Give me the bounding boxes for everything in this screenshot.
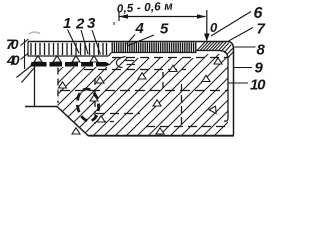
dimension left tick (118, 12, 120, 22)
svg-text:9: 9 (255, 60, 264, 77)
svg-text:8: 8 (257, 42, 266, 59)
left tick 1 (21, 39, 29, 46)
shoulder edge vertical (34, 67, 36, 107)
svg-text:10: 10 (250, 77, 266, 94)
left dimension extension (24, 39, 26, 69)
leader 9 (234, 67, 253, 69)
trench slope (57, 107, 89, 137)
ground line left (25, 106, 57, 108)
svg-text:4: 4 (135, 20, 145, 37)
pavement band left edge (27, 42, 29, 57)
zero level line (206, 10, 208, 40)
dashed vertical x163 (162, 72, 164, 88)
svg-text:7: 7 (257, 21, 266, 38)
leader 8 (234, 46, 256, 48)
dense vertical hatch right band (112, 43, 196, 53)
pavement band step (109, 53, 112, 57)
svg-text:70: 70 (6, 36, 19, 52)
svg-text:40: 40 (6, 52, 20, 68)
leader 7 (229, 28, 254, 42)
scattered triangles in body (59, 58, 223, 134)
dashed line y126 (146, 126, 227, 128)
dashed vertical x181 (181, 84, 183, 128)
dashed line y121 (98, 121, 114, 123)
svg-text:5: 5 (160, 21, 169, 38)
embankment slope stroke a (17, 66, 32, 78)
embankment slope stroke b (22, 67, 36, 83)
dashed vertical trench edge x59 (57, 68, 59, 104)
vertical hatch left band (31, 43, 107, 55)
curb inner outline (197, 51, 229, 122)
leader 1 (68, 30, 80, 54)
leader 4 (127, 35, 136, 45)
curb outer outline (197, 42, 234, 136)
black membrane strip (30, 62, 111, 67)
zero level arrow (204, 34, 210, 42)
triangle row on strip (34, 56, 98, 62)
leader 2 (81, 30, 88, 54)
joint curl mark (116, 57, 125, 68)
dashed layer line y90 (60, 90, 228, 92)
leader 5 (127, 35, 154, 46)
dashed vertical x95 (94, 78, 96, 124)
faint scan smudge (29, 32, 40, 34)
leader 10 (228, 82, 248, 84)
dimension right arrow (197, 14, 206, 19)
fill hatch of subgrade body (0, 50, 300, 150)
svg-text:6: 6 (254, 5, 263, 22)
dimension left arrow (119, 14, 128, 19)
leader 6 (211, 12, 251, 37)
faint scan speck (113, 22, 115, 25)
svg-text:3: 3 (87, 15, 96, 32)
leader 3 (92, 30, 101, 55)
dashed layer line y69 (84, 69, 186, 71)
pavement band bottom line right (112, 52, 197, 54)
svg-text:2: 2 (75, 16, 85, 33)
dashed line y113 (96, 113, 140, 115)
pavement band top line (28, 41, 197, 43)
dashed layer line y57 (112, 57, 227, 59)
svg-text:1: 1 (63, 15, 71, 32)
bottom line (89, 135, 235, 137)
dimension line (119, 16, 206, 18)
curb dense hatch (197, 42, 234, 58)
joint dashes (125, 61, 135, 65)
dashed circle drain pipe (75, 88, 100, 123)
left tick 2 (21, 53, 29, 60)
pavement band bottom line left (28, 55, 109, 57)
